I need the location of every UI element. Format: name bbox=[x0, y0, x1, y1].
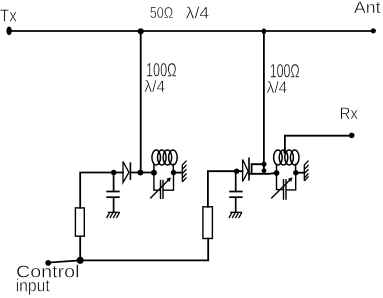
wire left 100ohm vertical bbox=[140, 31, 142, 173]
node control input terminal bbox=[45, 260, 51, 266]
svg-text:Tx: Tx bbox=[0, 6, 17, 26]
wire left diode to tank bbox=[130, 172, 154, 174]
node right cap junction bbox=[234, 169, 239, 174]
wire top Tx-Ant 50ohm line bbox=[9, 30, 374, 32]
svg-text:λ/4: λ/4 bbox=[186, 5, 209, 23]
svg-text:50Ω: 50Ω bbox=[150, 5, 174, 22]
node right tank right bbox=[293, 170, 298, 175]
wire right branch horizontal bbox=[208, 171, 243, 207]
capacitor C3 variable left bbox=[150, 173, 173, 199]
node Rx terminal bbox=[349, 133, 355, 139]
node right tank left bbox=[274, 170, 280, 176]
node left tank left bbox=[151, 170, 157, 176]
wire right 100ohm vertical bbox=[263, 31, 265, 171]
svg-text:Ant: Ant bbox=[354, 0, 381, 17]
wire left tank to ground hatch bbox=[174, 172, 183, 174]
node control-R1 junction bbox=[77, 257, 84, 264]
capacitor C1 bbox=[106, 173, 119, 213]
svg-text:input: input bbox=[16, 276, 50, 296]
ground chassis left bbox=[182, 161, 186, 182]
svg-text:Rx: Rx bbox=[340, 104, 359, 123]
node junction right on top line bbox=[262, 28, 266, 34]
wire right tank to ground hatch bbox=[296, 172, 305, 174]
wire Rx horizontal bbox=[285, 136, 352, 153]
ground earth right bbox=[229, 212, 242, 218]
capacitor C4 variable right bbox=[271, 173, 296, 200]
inductor L1 bbox=[152, 150, 177, 173]
svg-text:λ/4: λ/4 bbox=[267, 79, 288, 97]
inductor L2 bbox=[274, 150, 299, 173]
wire left branch horizontal bbox=[80, 173, 123, 208]
node left cap junction bbox=[111, 170, 117, 176]
wire left resistor bottom lead bbox=[79, 236, 81, 260]
diode D1 bbox=[123, 162, 130, 183]
capacitor C2 bbox=[229, 171, 242, 212]
resistor R1 bbox=[75, 208, 84, 236]
node right vertical upper junction bbox=[261, 162, 266, 167]
node left diode-line junction bbox=[137, 170, 143, 176]
wire right diode to tank bbox=[249, 172, 276, 175]
ground earth left bbox=[107, 212, 120, 218]
node right vertical end junction bbox=[262, 168, 267, 173]
diode D2 bbox=[243, 158, 249, 182]
ground chassis right bbox=[304, 161, 308, 181]
node Rx tap on coil bbox=[283, 150, 286, 153]
node left tank right bbox=[171, 170, 176, 175]
node junction left on top line bbox=[138, 28, 144, 34]
node Tx terminal bbox=[6, 27, 11, 36]
svg-text:λ/4: λ/4 bbox=[144, 78, 165, 96]
wire right diode loop top arm bbox=[252, 164, 264, 174]
resistor R2 bbox=[203, 207, 213, 239]
node Ant terminal bbox=[371, 28, 376, 33]
wire control input line bbox=[48, 239, 208, 263]
